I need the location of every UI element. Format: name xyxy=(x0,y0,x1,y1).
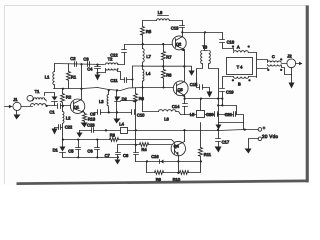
svg-text:+: + xyxy=(263,125,266,130)
capacitor C21 xyxy=(234,112,236,117)
junction C11 at shunt xyxy=(131,78,133,80)
connector J1 xyxy=(5,102,22,110)
junction T3 column at emitter bus xyxy=(217,98,219,100)
svg-text:C11: C11 xyxy=(110,78,118,83)
svg-text:A: A xyxy=(237,44,240,49)
junction start of supply bus xyxy=(105,129,107,131)
wire bias bus right xyxy=(119,140,175,143)
resistor R11 xyxy=(199,123,203,163)
wire L2 to bias bus xyxy=(62,128,64,140)
wire shunt to L4 node xyxy=(133,65,143,67)
wire R9 R10 row xyxy=(147,162,201,175)
phase dot B xyxy=(232,79,234,81)
svg-text:C19: C19 xyxy=(226,89,234,94)
junction R7 top xyxy=(162,43,164,45)
shield box T4 xyxy=(227,58,253,75)
capacitor C22 xyxy=(55,125,63,130)
wire Q4 collector xyxy=(184,131,186,142)
ground at D2 node xyxy=(114,113,121,124)
junction D2 top xyxy=(116,89,118,91)
capacitor C2 xyxy=(75,62,77,67)
svg-text:T1: T1 xyxy=(35,89,41,94)
supply bus wire xyxy=(107,130,121,132)
capacitor C19 xyxy=(220,89,225,99)
wire L1 R1 top xyxy=(55,64,105,65)
junction R5 bottom xyxy=(142,43,144,45)
ground at rail xyxy=(216,123,222,130)
svg-text:T 4: T 4 xyxy=(237,64,244,69)
transformer T2 xyxy=(106,63,118,70)
ground at C15 xyxy=(207,92,213,98)
svg-text:C22: C22 xyxy=(65,124,73,129)
svg-text:C14: C14 xyxy=(172,104,180,109)
ground at minus terminal xyxy=(245,149,252,154)
junction R7 bottom xyxy=(162,65,164,67)
svg-text:R5: R5 xyxy=(146,29,152,34)
svg-text:C23: C23 xyxy=(87,123,95,128)
junction Q2 emitter xyxy=(183,65,185,67)
transformer T1 xyxy=(27,95,46,105)
capacitor C12 xyxy=(118,45,127,65)
wire shunt column xyxy=(132,66,134,88)
svg-text:C1: C1 xyxy=(49,110,55,115)
terminal +20V xyxy=(258,128,262,132)
wire T4 output taps xyxy=(257,60,268,69)
junction C19 at emitter bus xyxy=(221,98,223,100)
capacitor C10 xyxy=(132,110,135,115)
capacitor C15 xyxy=(200,85,210,92)
junction bias bus left xyxy=(62,139,64,141)
ground at J2 xyxy=(289,75,295,89)
inductor L8 top xyxy=(157,16,170,21)
wire L6 row xyxy=(143,111,159,113)
capacitor C3 xyxy=(88,62,90,67)
svg-text:R8: R8 xyxy=(166,72,172,77)
svg-text:T3: T3 xyxy=(202,45,208,50)
wire emitter bus elbow xyxy=(222,99,224,106)
junction C30 node xyxy=(217,113,219,115)
svg-text:C5: C5 xyxy=(68,149,74,154)
arrow at J2 xyxy=(296,62,303,65)
resistor R1 xyxy=(67,64,71,89)
transistor Q3 xyxy=(173,67,188,99)
svg-text:C7: C7 xyxy=(105,153,111,158)
svg-text:R6: R6 xyxy=(139,96,145,101)
svg-text:C12: C12 xyxy=(110,52,118,57)
junction R6 bottom xyxy=(135,100,137,102)
resistor R6 xyxy=(134,88,138,103)
svg-text:B: B xyxy=(238,81,241,86)
capacitor C6 xyxy=(95,139,100,159)
capacitor C30 xyxy=(215,112,218,117)
junction L7 L4 tap xyxy=(141,65,143,67)
wire C4 node to T2 xyxy=(98,69,106,73)
svg-text:C: C xyxy=(272,54,275,59)
svg-text:L1: L1 xyxy=(45,75,50,80)
inductor L7 xyxy=(143,45,145,63)
transistor Q4 xyxy=(171,141,185,161)
wire J2 ground path xyxy=(282,66,292,75)
wire T3 left bottom to C15 xyxy=(197,64,203,88)
inductor box L8 xyxy=(121,128,128,134)
svg-text:R11: R11 xyxy=(204,152,212,157)
junction C4 top xyxy=(96,64,98,66)
inductor L3 xyxy=(107,89,110,112)
junction L3 bottom xyxy=(108,111,110,113)
wire emitter row xyxy=(136,161,201,163)
capacitor C9 xyxy=(95,110,101,115)
ground at C4 xyxy=(95,73,101,81)
junction collector node Q2 xyxy=(181,31,183,33)
svg-text:R3: R3 xyxy=(110,133,116,138)
capacitor C4 xyxy=(95,65,101,73)
border frame xyxy=(5,5,309,185)
capacitor C11 xyxy=(118,69,133,83)
svg-text:C2: C2 xyxy=(70,56,76,61)
junction R9 branch xyxy=(146,160,148,162)
svg-text:C3: C3 xyxy=(83,56,89,61)
svg-text:Q4: Q4 xyxy=(174,143,180,148)
ground at Q1 emitter xyxy=(81,123,88,128)
wire T1 to C1 xyxy=(47,105,57,107)
diode D2 xyxy=(115,91,121,113)
svg-text:R1: R1 xyxy=(71,75,77,80)
svg-text:L5: L5 xyxy=(190,112,195,117)
wire ground bus lower xyxy=(63,157,118,159)
wire bias bus xyxy=(63,139,110,141)
junction C17 at supply bus xyxy=(217,129,219,131)
wire C30 to C21 xyxy=(218,114,234,116)
svg-text:C17: C17 xyxy=(222,139,230,144)
junction T1 out xyxy=(46,105,48,107)
wire base bus Q2 xyxy=(125,44,173,46)
svg-text:C9: C9 xyxy=(90,111,96,116)
phase dot A xyxy=(248,45,250,47)
capacitor C7 xyxy=(116,145,121,158)
junction collector bus xyxy=(80,88,82,90)
junction C8 line at supply bus xyxy=(135,129,137,131)
resistor R2 xyxy=(61,89,65,106)
wire J1 to T1 xyxy=(22,106,33,108)
junction R2 top xyxy=(62,88,64,90)
wire decoupling rail xyxy=(219,123,244,130)
junction decoupling rail at supply bus xyxy=(244,129,246,131)
wire top feed xyxy=(143,20,157,22)
node C4 bottom xyxy=(96,72,98,74)
junction elbow mid row xyxy=(221,104,223,106)
junction Q1 collector at top wire xyxy=(80,63,82,65)
svg-text:D1: D1 xyxy=(53,148,59,153)
wire R6 column xyxy=(135,101,137,145)
ground at Q2 emitter row xyxy=(189,67,195,76)
emitter bus Q3 xyxy=(185,98,223,100)
transformer T3 xyxy=(201,33,211,64)
inductor L6 xyxy=(159,110,177,112)
svg-text:C15: C15 xyxy=(190,82,198,87)
junction ground bus right xyxy=(117,156,119,158)
resistor R3 xyxy=(110,138,119,142)
phase dot A left xyxy=(232,45,234,47)
svg-text:L7: L7 xyxy=(146,54,151,59)
supply bus wire right xyxy=(128,130,259,131)
svg-text:C13: C13 xyxy=(171,25,179,30)
svg-text:R4: R4 xyxy=(141,147,147,152)
junction C8 at R4 row xyxy=(135,144,137,146)
capacitor C5 xyxy=(76,139,81,159)
svg-text:J2: J2 xyxy=(287,53,292,58)
wire mid row xyxy=(219,106,237,115)
transformer T4 winding A xyxy=(234,51,257,78)
capacitor C14 xyxy=(183,98,188,115)
diode D1 xyxy=(60,140,66,158)
connector J2 xyxy=(287,59,296,68)
svg-text:R10: R10 xyxy=(173,177,181,182)
inductor L9 output xyxy=(268,61,282,66)
wire L9 to J2 xyxy=(282,63,287,65)
capacitor C17 xyxy=(216,130,221,147)
svg-text:L2: L2 xyxy=(66,115,71,120)
junction T3 top xyxy=(204,31,206,33)
svg-text:C16: C16 xyxy=(151,154,159,159)
svg-text:C8: C8 xyxy=(123,153,129,158)
svg-text:C6: C6 xyxy=(87,149,93,154)
svg-text:R7: R7 xyxy=(166,54,172,59)
inductor L2 xyxy=(63,106,64,128)
ground at J1 xyxy=(14,111,21,120)
svg-text:C21: C21 xyxy=(225,112,233,117)
capacitor C18 xyxy=(220,33,234,51)
junction L5 stem xyxy=(200,98,202,100)
capacitor C13 xyxy=(180,21,185,33)
svg-text:C18: C18 xyxy=(227,40,235,45)
junction Q4 emitter xyxy=(177,160,179,162)
diode at T1 tap xyxy=(52,97,58,106)
phase dot output bottom xyxy=(280,69,282,71)
wire L6 to C14 node xyxy=(176,112,185,115)
phase dot B right xyxy=(248,79,250,81)
svg-text:20 Vdc: 20 Vdc xyxy=(262,134,279,139)
svg-text:L6: L6 xyxy=(164,116,169,121)
junction D2 bottom xyxy=(116,111,118,113)
svg-text:J1: J1 xyxy=(13,97,18,102)
ground at supply rail end xyxy=(77,131,83,138)
wire bottom of L1 R1 xyxy=(54,88,174,91)
wire C21 corner xyxy=(236,115,244,123)
svg-text:L4: L4 xyxy=(146,71,151,76)
svg-text:L4: L4 xyxy=(119,122,124,127)
wire Q1 collector xyxy=(81,65,83,100)
svg-text:C4: C4 xyxy=(87,67,93,72)
transistor Q2 xyxy=(172,33,186,67)
inductor box L5 xyxy=(185,99,215,118)
ground at C22 xyxy=(52,128,58,135)
node R2/L2 on base wire xyxy=(62,105,64,107)
resistor R4 xyxy=(140,143,149,147)
wire T1 top tap xyxy=(45,93,55,97)
svg-text:L8: L8 xyxy=(158,10,163,15)
svg-text:R13: R13 xyxy=(88,116,96,121)
svg-text:C30: C30 xyxy=(206,112,214,117)
ground at lower bus xyxy=(115,158,121,165)
inductor L4 xyxy=(141,63,143,112)
svg-text:Q3: Q3 xyxy=(178,87,183,92)
svg-text:R2: R2 xyxy=(66,94,72,99)
wire T3 column lower xyxy=(218,99,220,123)
wire R4 row xyxy=(118,144,140,146)
phase dot output top xyxy=(280,58,282,60)
junction Q4 collector at supply bus xyxy=(183,129,185,131)
transformer T4 winding B xyxy=(223,77,257,88)
wire R4 to Q4 base xyxy=(149,144,172,146)
junction T3 column mid row xyxy=(217,104,219,106)
svg-text:Q2: Q2 xyxy=(176,42,181,47)
transistor Q1 xyxy=(70,99,84,113)
capacitor C16 xyxy=(160,160,164,164)
resistor R5 xyxy=(141,21,145,45)
capacitor C8 xyxy=(134,145,139,162)
wire D2 to R6 xyxy=(121,100,136,102)
wire C9 to C10 xyxy=(101,112,132,114)
resistor R8 xyxy=(162,67,166,89)
svg-text:C10: C10 xyxy=(137,112,145,117)
resistor R7 xyxy=(162,45,166,67)
svg-text:R9: R9 xyxy=(156,177,162,182)
svg-text:Q1: Q1 xyxy=(74,104,79,109)
wire emitter row Q2 xyxy=(143,65,192,67)
inductor L1 xyxy=(53,64,55,89)
svg-text:L3: L3 xyxy=(99,99,104,104)
resistor R13 xyxy=(83,113,87,123)
wire T3 right bottom xyxy=(209,64,219,99)
terminal minus xyxy=(258,137,262,141)
phase dot output left xyxy=(267,69,269,71)
wire collector bus to C18 xyxy=(183,32,223,34)
ground at C17 xyxy=(215,147,222,153)
capacitor C23 xyxy=(80,128,107,133)
capacitor C1 xyxy=(58,104,71,109)
wire L8 to C13 xyxy=(170,20,183,22)
wire minus terminal xyxy=(249,139,259,149)
